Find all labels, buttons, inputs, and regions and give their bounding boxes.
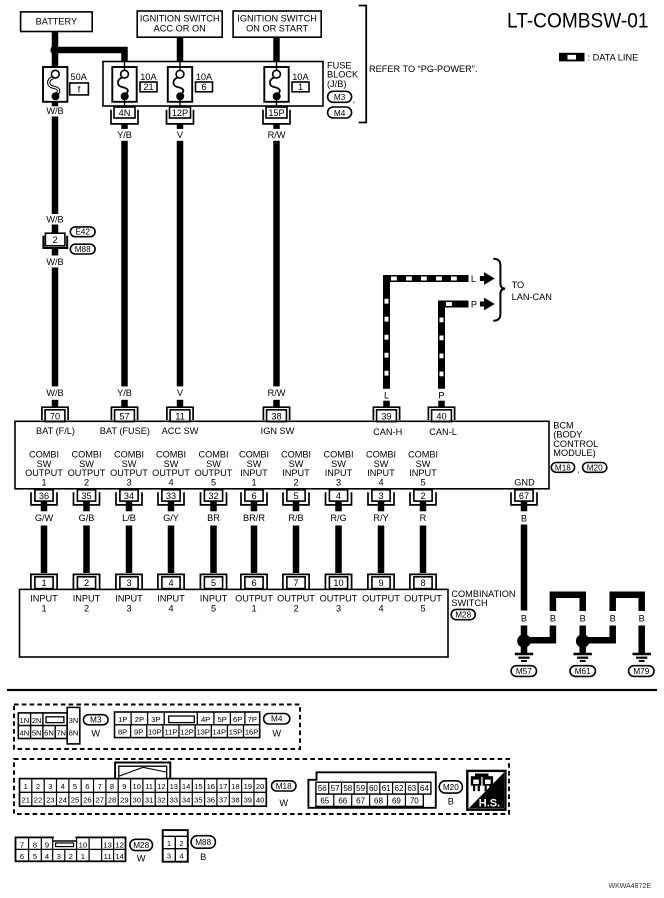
svg-text:9: 9 [45,840,49,849]
ground symbol M57 [515,654,533,661]
wire stub into joint connector [52,225,59,234]
svg-text:M4: M4 [271,715,283,724]
ignition switch box 2 [233,11,321,37]
svg-text:40: 40 [436,411,446,421]
svg-text:M4: M4 [334,109,346,118]
switch pin 4 [158,574,184,589]
svg-text:M20: M20 [587,463,603,472]
svg-text:1: 1 [298,82,303,92]
svg-text:25: 25 [71,796,79,805]
svg-text:59: 59 [356,784,365,793]
node battery junction [50,45,59,54]
svg-text:INPUT: INPUT [157,594,185,604]
svg-text:10A: 10A [292,72,309,82]
svg-text:W/B: W/B [46,215,63,225]
connector pin 15P [263,107,290,124]
svg-text:2: 2 [293,603,298,613]
pin 39 [373,407,399,421]
svg-text:6: 6 [251,578,256,588]
svg-text:33: 33 [166,491,176,501]
wire BR down [210,526,217,574]
svg-text:24: 24 [58,796,66,805]
bracket fuse block [359,6,367,123]
svg-text:BAT (F/L): BAT (F/L) [36,426,75,436]
svg-text:4: 4 [168,477,173,487]
wire R/W stub [273,124,280,129]
svg-text:W/B: W/B [46,257,63,267]
connector ref M3 detail [83,715,108,739]
svg-text:8N: 8N [69,729,79,738]
svg-text:36: 36 [39,491,49,501]
svg-text:10: 10 [79,840,87,849]
fusible link f 50A [43,67,88,102]
ground loop 1 left lower jog [524,626,553,641]
svg-text:11: 11 [104,852,112,861]
svg-text:ACC SW: ACC SW [162,426,199,436]
svg-text:ON OR START: ON OR START [246,23,308,33]
svg-text:f: f [78,85,81,95]
svg-text:65: 65 [320,797,329,806]
wire ignition2 down [273,37,280,62]
arrow to lan-can 1 [480,272,495,285]
svg-text:IGNITION SWITCH: IGNITION SWITCH [140,13,220,23]
svg-text:23: 23 [46,796,54,805]
logo H.S. [467,771,505,810]
switch pin 6 [241,574,267,589]
svg-text:18: 18 [231,782,239,791]
pin 34 [116,490,142,505]
svg-text:2: 2 [84,477,89,487]
connector ref M88 [70,244,95,254]
svg-text:37: 37 [219,796,227,805]
svg-text:IGN SW: IGN SW [261,426,295,436]
connector face M4 grid [115,712,260,738]
battery box [21,12,93,32]
svg-text:REFER TO “PG-POWER”.: REFER TO “PG-POWER”. [369,64,477,74]
svg-text:61: 61 [382,784,391,793]
wire R down [420,526,427,574]
svg-text:4P: 4P [201,715,210,724]
svg-text:M3: M3 [90,716,102,725]
svg-text:6: 6 [85,782,89,791]
switch pin 7 [283,574,309,589]
wire stub below pin6 [251,501,258,511]
svg-text:M28: M28 [133,841,149,850]
switch pin 1 [31,574,57,589]
svg-text:B: B [550,613,556,623]
svg-text:2N: 2N [32,716,42,725]
svg-text:L: L [471,274,476,284]
svg-text:7: 7 [293,578,298,588]
svg-text:3P: 3P [151,715,160,724]
wire R/G down [335,526,342,574]
svg-text:M61: M61 [575,667,591,676]
svg-text:8: 8 [110,782,114,791]
svg-text:3: 3 [57,852,61,861]
connector ref M61 [570,666,595,677]
wire stub pin38 [273,400,280,407]
svg-text:TO: TO [512,280,525,290]
svg-text:2: 2 [69,852,73,861]
svg-text:4: 4 [179,851,183,860]
wire stub below pin33 [168,501,175,511]
svg-text:GND: GND [514,477,535,487]
svg-text:22: 22 [34,796,42,805]
svg-text:Y/B: Y/B [117,388,132,398]
svg-text:6: 6 [251,491,256,501]
wire R/B down [293,526,300,574]
svg-text:50A: 50A [71,72,88,82]
connector ref M20 detail [439,781,462,807]
svg-text:E42: E42 [75,228,90,237]
svg-text:INPUT: INPUT [30,594,58,604]
connector face M3 grid [18,707,79,744]
svg-text:3: 3 [378,491,383,501]
svg-text:6N: 6N [44,729,54,738]
switch column labels [30,594,442,614]
svg-text:M28: M28 [455,611,471,620]
svg-text:4: 4 [168,603,173,613]
svg-text:10A: 10A [140,72,157,82]
svg-text:15P: 15P [229,728,243,737]
svg-text:5N: 5N [32,729,42,738]
label TO LAN-CAN [512,280,552,302]
svg-text:3: 3 [336,603,341,613]
switch pin 8 [410,574,436,589]
connector pin 12P [167,107,194,124]
ground loop 2 left lower jog [583,626,613,641]
wire ignition1 down [177,37,184,62]
svg-text:V: V [177,388,184,398]
svg-text:16P: 16P [245,728,259,737]
svg-text:BATTERY: BATTERY [36,17,78,27]
svg-text:69: 69 [392,797,401,806]
svg-text:12: 12 [157,782,165,791]
fuse block box [103,62,323,107]
svg-text:11: 11 [175,411,185,421]
pin 57 [111,407,137,421]
svg-text:P: P [471,299,477,309]
wire stub pin70 [52,400,59,407]
svg-text:5P: 5P [218,715,227,724]
svg-text:R/Y: R/Y [373,513,388,523]
wire stub below pin2 [420,501,427,511]
svg-text:38: 38 [271,411,281,421]
svg-text:21: 21 [21,796,29,805]
pin 2 [410,490,436,505]
svg-text:3N: 3N [69,716,79,725]
wire G/Y down [168,526,175,574]
arrow to lan-can 2 [480,298,495,311]
svg-text:63: 63 [407,784,416,793]
svg-text:OUTPUT: OUTPUT [362,594,400,604]
svg-text:67: 67 [519,491,529,501]
separator line [7,689,657,691]
svg-text:7N: 7N [56,729,66,738]
svg-text:14: 14 [115,852,123,861]
svg-text:ACC OR ON: ACC OR ON [154,23,206,33]
svg-text:MODULE): MODULE) [553,448,595,458]
ground loop 2 right lower [638,626,645,654]
svg-text:67: 67 [356,797,365,806]
svg-text:38: 38 [231,796,239,805]
svg-text:LT-COMBSW-01: LT-COMBSW-01 [507,9,649,33]
svg-text:32: 32 [208,491,218,501]
svg-text:35: 35 [81,491,91,501]
svg-text:M3: M3 [334,93,346,102]
svg-text:B: B [639,613,645,623]
svg-text:R/G: R/G [330,513,346,523]
fuse 10A 21 [112,62,157,108]
svg-text:40: 40 [256,796,264,805]
svg-text:: DATA LINE: : DATA LINE [588,52,639,62]
svg-text:4N: 4N [20,729,30,738]
svg-text:4: 4 [168,578,173,588]
svg-text:B: B [610,613,616,623]
BCM column labels [25,450,438,488]
wire G/B down [83,526,90,574]
svg-text:W: W [137,854,146,864]
svg-text:10A: 10A [196,72,213,82]
data line CAN-H horizontal [383,275,469,282]
svg-text:8: 8 [420,578,425,588]
wire stub below pin3 [378,501,385,511]
svg-text:6: 6 [20,852,24,861]
switch pin 3 [116,574,142,589]
wire W/B to BCM [52,268,59,387]
wire BR/R down [251,526,258,574]
svg-text:70: 70 [50,411,60,421]
svg-text:W/B: W/B [46,106,63,116]
svg-text:57: 57 [119,411,129,421]
svg-text:5: 5 [73,782,77,791]
svg-text:70: 70 [410,797,419,806]
svg-text:13: 13 [103,840,111,849]
wire drop to fuse 21 [121,47,128,62]
node junction dot 1 [517,634,531,648]
svg-text:8: 8 [33,840,37,849]
svg-text:B: B [200,852,206,862]
ground loop 1 right lower [579,626,586,643]
svg-text:16: 16 [207,782,215,791]
legend data line symbol [559,53,585,62]
svg-text:1: 1 [167,839,171,848]
svg-text:6P: 6P [233,715,242,724]
svg-text:1: 1 [41,578,46,588]
svg-text:28: 28 [108,796,116,805]
svg-text:1: 1 [24,782,28,791]
svg-text:26: 26 [83,796,91,805]
svg-text:32: 32 [157,796,165,805]
wire stub below pin4 [335,501,342,511]
svg-text:13P: 13P [196,728,210,737]
svg-text:B: B [580,613,586,623]
switch pin 2 [73,574,99,589]
svg-text:11P: 11P [165,728,178,737]
svg-text:4: 4 [61,782,65,791]
wire stub pin57 [121,400,128,407]
svg-text:M88: M88 [75,245,91,254]
svg-text:12P: 12P [180,728,194,737]
svg-text:9P: 9P [134,728,143,737]
svg-text:2: 2 [84,578,89,588]
svg-text:M18: M18 [555,463,571,472]
svg-text:G/W: G/W [35,513,54,523]
svg-text:BR/R: BR/R [243,513,265,523]
svg-text:33: 33 [170,796,178,805]
svg-text:W/B: W/B [46,388,63,398]
ground loop 2 top [613,595,642,611]
pin 40 [428,407,454,421]
svg-text:1: 1 [81,852,85,861]
svg-text:3: 3 [167,851,171,860]
svg-text:B: B [521,513,527,523]
BCM side label [553,420,598,458]
pin 35 [74,490,100,505]
svg-text:1: 1 [41,477,46,487]
svg-text:60: 60 [369,784,378,793]
pin 11 [167,407,193,421]
wire stub M61 ground [579,641,586,653]
connector ref M4 [328,107,352,118]
svg-text:66: 66 [338,797,347,806]
pin 5 [283,490,309,505]
svg-text:35: 35 [194,796,202,805]
switch pin 9 [368,574,394,589]
svg-text:Y/B: Y/B [117,130,132,140]
switch pin 5 [200,574,226,589]
svg-text:12P: 12P [172,108,188,118]
svg-text:W: W [91,728,100,738]
svg-text:30: 30 [132,796,140,805]
svg-text:58: 58 [343,784,352,793]
switch pin 10 [325,574,351,589]
connector pin 4N [111,107,138,124]
svg-text:8P: 8P [118,728,127,737]
wire Y/B down [121,141,128,387]
wire R/W down [273,141,280,387]
svg-text:4: 4 [378,477,383,487]
wire stub pin40 [438,401,445,408]
connector ref M4 detail [264,714,290,739]
wire stub pin11 [177,400,184,407]
svg-text:31: 31 [145,796,153,805]
wire L/B down [126,526,133,574]
svg-text:10P: 10P [148,728,162,737]
svg-text:,: , [577,465,579,474]
wire battery to fuse block horizontal [52,47,128,54]
svg-text:15: 15 [194,782,202,791]
svg-text:5: 5 [33,852,37,861]
connector ref M18 detail [272,781,297,808]
svg-text:3: 3 [126,477,131,487]
wire B gnd down lower [521,626,528,654]
svg-text:62: 62 [395,784,404,793]
wire V down [177,141,184,387]
connector ref M79 [629,666,654,677]
connector ref E42 [70,227,95,237]
data line CAN-H vertical [383,275,390,389]
svg-text:4: 4 [378,603,383,613]
wire stub below pin35 [83,501,90,511]
svg-text:6: 6 [201,82,206,92]
svg-text:G/Y: G/Y [163,513,179,523]
dashed box M3 M4 [14,705,300,750]
svg-text:L/B: L/B [122,513,136,523]
svg-text:12: 12 [115,840,123,849]
wire stub below pin36 [41,501,48,511]
svg-text:56: 56 [318,784,327,793]
svg-text:WKWA4872E: WKWA4872E [609,883,652,890]
svg-text:W: W [279,798,288,808]
dashed box M18 M20 [14,759,509,814]
joint connector 2 E42/M88 [43,233,67,248]
svg-text:2: 2 [420,491,425,501]
svg-text:5: 5 [211,477,216,487]
svg-text:14P: 14P [213,728,227,737]
wire stub below pin67 [521,501,528,511]
svg-text:B: B [448,797,454,807]
svg-text:P: P [438,391,444,401]
svg-text:34: 34 [124,491,134,501]
svg-text:2: 2 [179,839,183,848]
svg-text:IGNITION SWITCH: IGNITION SWITCH [237,13,317,23]
pin 32 [201,490,227,505]
svg-text:M57: M57 [516,667,532,676]
pin 6 [241,490,267,505]
svg-text:15P: 15P [268,108,284,118]
pin 3 [368,490,394,505]
svg-text:13: 13 [170,782,178,791]
connector ref M20 [583,463,607,473]
svg-text:R/W: R/W [268,388,286,398]
svg-text:G/B: G/B [79,513,95,523]
svg-text:3: 3 [126,603,131,613]
fuse 10A 1 [264,62,309,108]
ignition switch box 1 [137,11,222,37]
svg-text:W: W [272,729,281,739]
data line CAN-L horizontal [438,301,469,308]
svg-text:19: 19 [244,782,252,791]
connector face M28 grid [16,836,126,861]
svg-text:7: 7 [20,840,24,849]
pin 67 GND [511,490,537,505]
wire stub below pin5 [293,501,300,511]
svg-text:R/W: R/W [268,130,286,140]
connector ref M18 [551,463,579,475]
pin 4 [326,490,352,505]
connector face M18 bump [115,763,170,779]
svg-text:2: 2 [53,235,58,245]
pin 38 [263,407,289,421]
svg-text:9: 9 [378,578,383,588]
svg-text:1: 1 [251,603,256,613]
svg-text:10: 10 [333,578,343,588]
connector ref M3 [328,91,355,104]
svg-text:INPUT: INPUT [200,594,228,604]
wire battery down [52,32,59,47]
connector face M20 grid [308,772,435,808]
label COMBINATION SWITCH [451,589,515,608]
svg-text:17: 17 [219,782,227,791]
svg-text:BR: BR [207,513,220,523]
connector face M88 grid [163,830,188,862]
wire V stub [177,124,184,129]
svg-text:LAN-CAN: LAN-CAN [512,292,552,302]
wire Y/B stub [121,124,128,129]
connector ref M28 [451,609,475,619]
svg-text:20: 20 [256,782,264,791]
